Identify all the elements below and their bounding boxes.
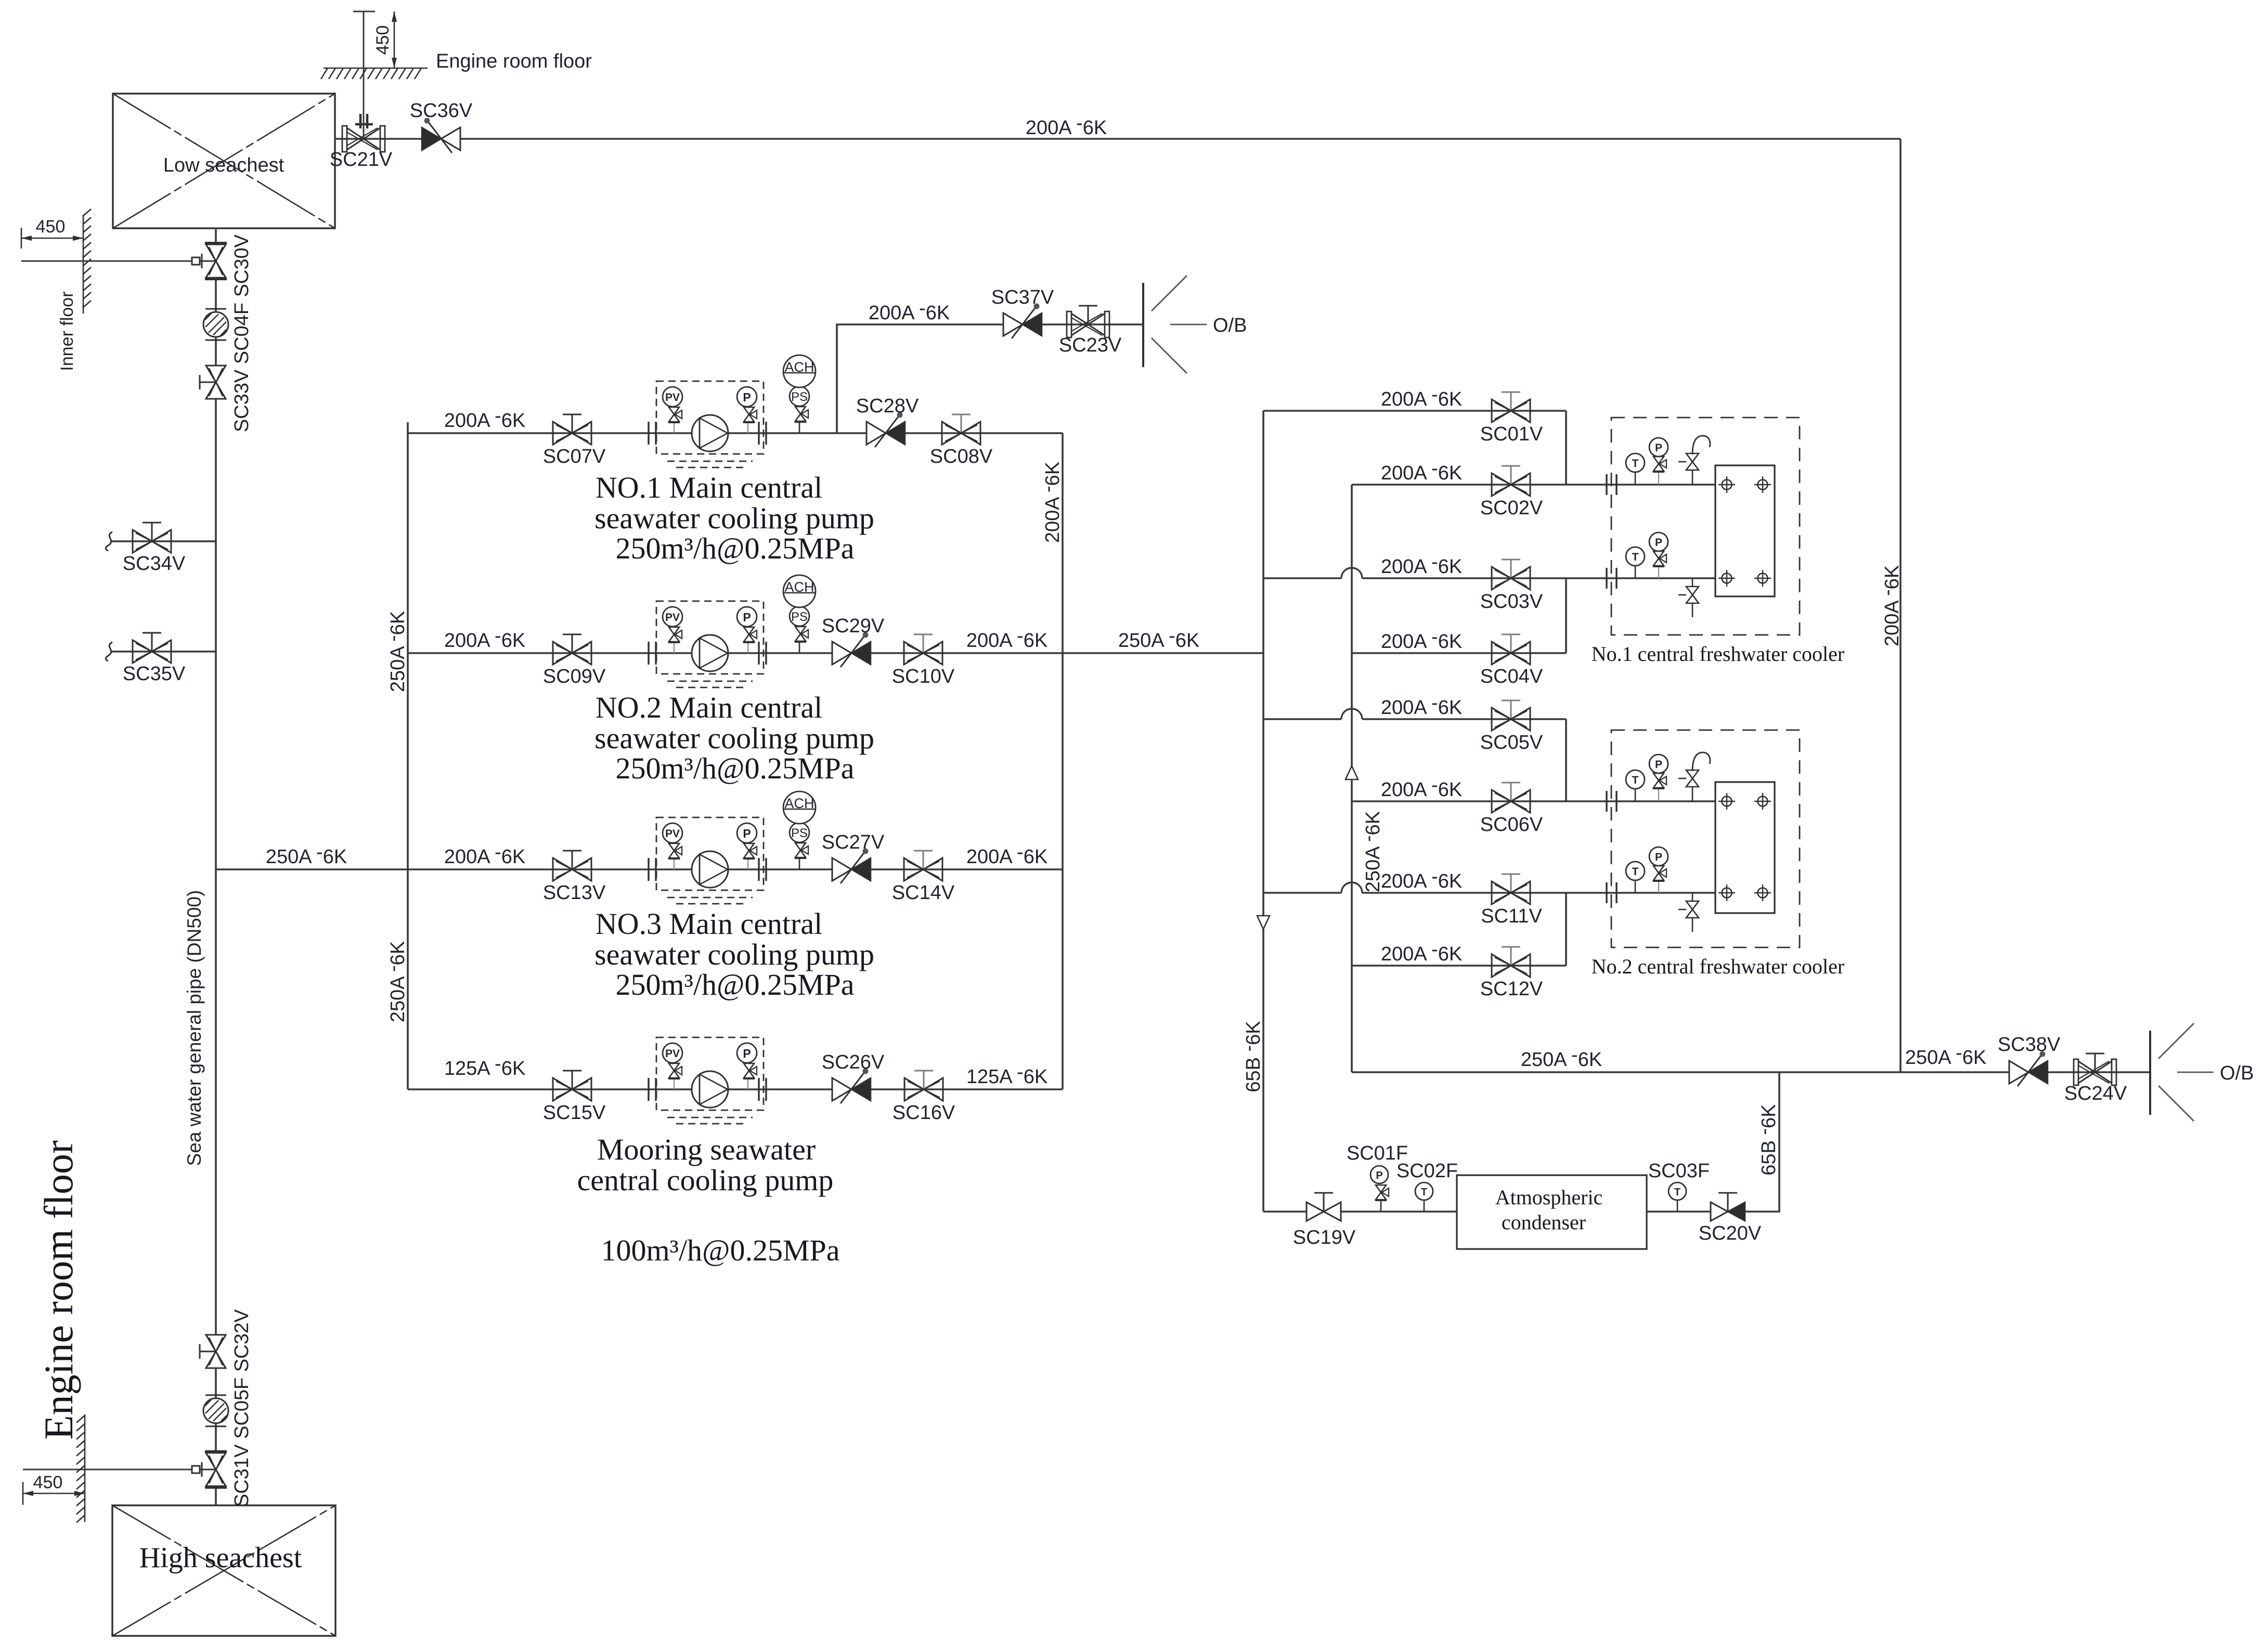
svg-text:Mooring seawater: Mooring seawater [597,1133,816,1166]
valve: cooler 1 drain [1678,578,1699,617]
node: overboard discharge O/B (top) [1143,276,1247,373]
svg-text:PS: PS [791,610,808,624]
valve SC31V [192,1452,227,1487]
svg-text:P: P [1655,442,1662,454]
svg-text:ACH: ACH [784,796,814,811]
svg-text:SC15V: SC15V [543,1102,606,1124]
valve SC07V [543,414,606,467]
svg-text:SC36V: SC36V [410,100,473,122]
strainer SC04F [203,309,228,340]
svg-text:PS: PS [791,390,808,404]
wire: cooler branch SC05V [1263,709,1566,719]
svg-text:P: P [743,610,751,624]
node: cooler 1 port [1754,476,1771,493]
valve SC20V [1699,1193,1762,1244]
valve SC32V [200,1335,226,1368]
valve: cooler 1 air vent [1678,436,1710,485]
valve SC28V [856,395,919,447]
valve SC30V [192,243,227,279]
node: flow arrow up (line2) [1346,766,1358,779]
dimension 450 (bottom) [23,1473,85,1505]
label: Engine room floor (left, large) [36,1140,81,1440]
pump P4 [692,1071,728,1108]
valve SC36V [422,118,460,153]
label: No.1 central freshwater cooler [1592,642,1844,666]
svg-text:seawater cooling pump: seawater cooling pump [594,721,874,755]
svg-text:Engine room floor: Engine room floor [436,50,592,72]
gauge P (cooler 1 outlet) [1649,532,1668,578]
svg-text:NO.1 Main central: NO.1 Main central [596,471,822,504]
node: cooler 1 port [1718,570,1735,587]
label 200A-6K (SC05V branch) [1381,692,1462,719]
valve SC27V [822,831,885,883]
svg-text:SC12V: SC12V [1480,978,1543,1000]
wire: suction header [407,422,409,1089]
valve SC10V [892,634,955,687]
svg-text:ACH: ACH [784,359,814,375]
label 125AA-6K (row 4 right) [966,1061,1048,1088]
svg-text:SC07V: SC07V [543,446,606,467]
svg-text:SC06V: SC06V [1480,814,1543,836]
svg-text:P: P [743,391,751,404]
label: NO.2 pump description [594,691,874,785]
label: Inner floor [57,291,77,371]
valve SC37V [991,287,1054,339]
valve SC03V [1480,560,1543,613]
valve SC04V [1480,634,1543,687]
valve SC06V [1480,783,1543,836]
valve SC01V [1480,392,1543,445]
svg-text:SC16V: SC16V [893,1102,955,1124]
svg-text:Low seachest: Low seachest [163,154,285,176]
wire: deck penetration line to SC30V [21,261,192,262]
svg-text:SC02V: SC02V [1480,497,1543,519]
instrument ACH/PS (pump 2) [783,575,816,653]
wire: 65B condenser outlet riser [1647,1072,1779,1212]
label 200A-6K (right vertical, rotated) [1877,565,1903,646]
gauge P (cooler 1 inlet) [1649,438,1668,485]
flange (cooler 1 outlet) [1607,568,1617,589]
node: engine room floor hatch (top) [321,68,428,79]
pump P2 [692,635,728,671]
svg-text:PS: PS [791,826,808,840]
wire: cooler branch SC11V [1263,882,1715,893]
valve SC33V [200,366,226,399]
label 200A-6K (discharge header, rotated) [1037,462,1064,543]
label 250A-6K (to coolers) [1118,625,1199,652]
label: Mooring pump description [577,1133,840,1267]
label 250A-6K (suction header lower, rotated) [382,941,409,1022]
svg-text:SC19V: SC19V [1293,1227,1356,1248]
svg-text:SC02F: SC02F [1396,1160,1458,1182]
svg-text:SC13V: SC13V [543,882,606,904]
svg-text:PV: PV [665,1048,680,1060]
wire: cooler branch SC04V [1352,652,1566,654]
gauge SC02F [1396,1160,1458,1212]
node: cooler 1 plate block [1715,465,1775,596]
svg-text:450: 450 [373,25,393,55]
wire: pump row 3 pipe [408,868,1063,870]
gauge T (cooler 2 inlet) [1626,770,1645,801]
dimension 450 (inner floor) [21,217,83,249]
valve SC11V [1481,874,1542,927]
gauge T (cooler 1 outlet) [1626,547,1645,578]
node: Low seachest [113,94,335,228]
wire: cooler cross connections at x=3011 [1565,411,1567,966]
label 250A-6K (line2, rotated) [1357,811,1384,892]
gauge PV (pump 1) [663,387,682,433]
svg-text:100m³/h@0.25MPa: 100m³/h@0.25MPa [601,1233,839,1267]
svg-text:condenser: condenser [1502,1211,1586,1234]
gauge SC03F [1648,1160,1710,1212]
flange (pump 1 discharge) [759,422,766,445]
label 250A-6K (bottom right) [1905,1042,1986,1069]
node: cooler 2 port [1718,793,1735,810]
wire: discharge header [1062,433,1064,1089]
svg-text:PV: PV [665,828,680,840]
gauge SC01F [1347,1142,1408,1212]
svg-text:P: P [743,827,751,840]
gauge T (cooler 2 outlet) [1626,862,1645,893]
wire: cooler branch SC06V [1352,800,1715,802]
node: pump 2 unit dashed box [656,601,764,687]
label 200A-6K (overboard line) [869,297,950,324]
label 125AA-6K (row 4 left) [444,1053,525,1079]
svg-text:P: P [743,1047,751,1060]
svg-text:Sea water general pipe (DN500: Sea water general pipe (DN500) [184,890,205,1166]
svg-text:SC03F: SC03F [1648,1160,1710,1182]
instrument ACH/PS (pump 1) [783,355,816,433]
valve SC12V [1480,947,1543,1000]
wire: cooler return line 1 [1262,411,1264,1212]
flange (pump 2 discharge) [759,642,766,665]
gauge P (cooler 2 outlet) [1649,847,1668,893]
node: engine room floor wall (bottom) [76,1414,85,1523]
label 200A-6K (SC12V branch) [1381,939,1462,965]
svg-text:450: 450 [33,1473,63,1492]
label 250A-6K (bottom left) [1521,1044,1602,1071]
valve SC21V [342,114,385,152]
label 200A-6K (SC11V branch) [1381,866,1462,892]
svg-text:450: 450 [36,217,66,237]
label: NO.3 pump description [594,907,874,1001]
wire: deck penetration line to SC31V [23,1469,192,1471]
valve SC08V [930,414,993,467]
node: cooler 2 port [1754,884,1771,901]
svg-text:T: T [1421,1187,1427,1198]
node: No.1 central freshwater cooler dashed box [1611,418,1800,635]
valve: cooler 2 air vent [1678,752,1710,801]
gauge PV (pump 3) [663,823,682,869]
gauge P (cooler 2 inlet) [1649,755,1668,801]
svg-text:SC33V SC04F SC30V: SC33V SC04F SC30V [231,234,253,432]
gauge P (pump 2) [737,607,757,653]
label: No.2 central freshwater cooler [1592,955,1844,978]
svg-text:SC10V: SC10V [892,666,955,687]
flange (pump 3 discharge) [759,858,766,881]
wire: pump row 1 pipe [408,432,1063,434]
strainer SC05F [203,1395,228,1426]
wire: cooler supply line 2 [1351,485,1353,1072]
label 250A-6K (suction header upper, rotated) [382,611,409,692]
svg-text:SC23V: SC23V [1059,334,1122,356]
label SC36V [410,100,473,122]
svg-text:No.2 central freshwater cooler: No.2 central freshwater cooler [1592,955,1844,978]
valve SC15V [543,1071,606,1124]
svg-text:O/B: O/B [1213,315,1247,336]
svg-text:SC35V: SC35V [123,663,186,685]
svg-text:SC38V: SC38V [1998,1034,2061,1056]
svg-text:SC24V: SC24V [2064,1083,2127,1104]
wire: right side 200A vertical [1899,139,1902,1072]
flange (pump 3 suction) [649,858,656,881]
valve SC24V [2064,1053,2127,1104]
flange (pump 2 suction) [649,642,656,665]
label 65B-6K (line1, rotated) [1238,1021,1264,1092]
valve SC05V [1480,700,1543,753]
valve SC09V [543,634,606,687]
svg-text:SC05V: SC05V [1480,732,1543,753]
valve SC13V [543,851,606,904]
node: cooler 2 port [1718,884,1735,901]
gauge P (pump 1) [737,387,757,433]
svg-text:NO.2 Main central: NO.2 Main central [596,691,822,724]
valve: cooler 2 drain [1678,893,1699,932]
pump P1 [692,415,728,451]
svg-text:O/B: O/B [2220,1062,2254,1084]
valve SC02V [1480,466,1543,519]
flange (pump 4 discharge) [759,1078,766,1101]
svg-text:ACH: ACH [784,579,814,595]
valve SC29V [822,615,885,667]
svg-text:250m³/h@0.25MPa: 250m³/h@0.25MPa [615,968,854,1001]
svg-text:seawater cooling pump: seawater cooling pump [594,501,874,535]
label 200A-6K (top line) [1026,112,1107,139]
wire: pump row1 overboard riser [837,324,1143,433]
svg-text:SC26V: SC26V [822,1051,885,1073]
flange (pump 1 suction) [649,422,656,445]
node: pump 4 unit dashed box [656,1037,764,1124]
svg-text:P: P [1655,759,1662,771]
label 200A-6K (SC01V branch) [1381,384,1462,410]
gauge PV (pump 4) [663,1043,682,1089]
svg-text:250m³/h@0.25MPa: 250m³/h@0.25MPa [615,751,854,785]
flange (cooler 1 inlet) [1607,474,1617,495]
svg-text:SC20V: SC20V [1699,1222,1762,1244]
label: NO.1 pump description [594,471,874,565]
wire: cooler branch SC01V [1263,410,1566,412]
wire: cooler branch SC03V [1263,568,1715,578]
node: inner floor wall [83,209,91,314]
wire: 250A cooler outlet bottom line [1352,1071,2150,1073]
svg-text:SC01V: SC01V [1480,423,1543,445]
svg-text:SC11V: SC11V [1481,905,1542,927]
node: cooler 1 port [1754,570,1771,587]
label 65B-6K (riser, rotated) [1753,1104,1780,1175]
valve SC38V [1998,1034,2061,1086]
wire: pump row 4 pipe [408,1088,1063,1090]
gauge P (pump 3) [737,823,757,869]
flange (pump 4 suction) [649,1078,656,1101]
svg-text:T: T [1674,1187,1680,1198]
wire: SC21V vent riser [353,11,375,139]
dimension 450 (engine room floor, top) [373,11,397,68]
svg-text:P: P [1655,851,1662,863]
label SC31V SC05F SC32V [231,1309,253,1507]
label 250A-6K (suction branch) [266,841,347,868]
label 200A-6K (SC04V branch) [1381,626,1462,653]
svg-text:T: T [1632,551,1639,563]
valve SC35V [106,633,216,685]
svg-text:SC08V: SC08V [930,446,993,467]
gauge PV (pump 2) [663,607,682,653]
node: flow arrow down (line1) [1257,916,1270,929]
svg-text:Engine room floor: Engine room floor [36,1140,81,1440]
svg-text:SC04V: SC04V [1480,666,1543,687]
label 200AA-6K (row 3 left) [444,841,525,868]
wire: 65B condenser supply line [1263,1211,1457,1213]
svg-text:T: T [1632,866,1639,878]
valve SC34V [106,523,216,575]
gauge T (cooler 1 inlet) [1626,453,1645,485]
label SC33V SC04F SC30V [231,234,253,432]
svg-text:High seachest: High seachest [139,1542,302,1574]
label 200A-6K (SC06V branch) [1381,774,1462,801]
label 200AA-6K (row 3 right) [966,841,1048,868]
node: overboard discharge O/B (bottom) [2150,1023,2254,1121]
svg-text:P: P [1655,537,1662,549]
svg-text:PV: PV [665,392,680,404]
label 200AA-6K (row 2 left) [444,625,525,652]
svg-text:NO.3 Main central: NO.3 Main central [596,907,822,941]
valve SC19V [1293,1193,1356,1248]
svg-text:SC37V: SC37V [991,287,1054,308]
svg-text:SC27V: SC27V [822,831,885,853]
label: Engine room floor (top) [436,50,592,72]
wire: cooler branch SC02V [1352,484,1715,486]
svg-text:Inner floor: Inner floor [57,291,77,371]
wire: cooler branch SC12V [1352,965,1566,967]
valve SC14V [892,851,955,904]
wire: sea water general pipe vertical DN500 [215,228,217,1505]
label SC21V [330,149,393,171]
label 200AA-6K (row 2 right) [966,625,1048,652]
svg-text:Atmospheric: Atmospheric [1495,1186,1603,1209]
svg-text:SC29V: SC29V [822,615,885,637]
svg-text:P: P [1376,1170,1382,1181]
svg-text:250m³/h@0.25MPa: 250m³/h@0.25MPa [615,531,854,565]
node: Atmospheric condenser [1457,1175,1647,1249]
svg-text:PV: PV [665,612,680,623]
flange (cooler 2 outlet) [1607,882,1617,903]
label 200A-6K (SC02V branch) [1381,458,1462,484]
svg-text:T: T [1632,458,1639,470]
svg-text:SC28V: SC28V [856,395,919,417]
node: pump 3 unit dashed box [656,817,764,904]
node: High seachest [112,1505,335,1636]
pump P3 [692,851,728,888]
instrument ACH/PS (pump 3) [783,791,816,869]
svg-text:SC09V: SC09V [543,666,606,687]
label 200A-6K (SC03V branch) [1381,551,1462,578]
svg-text:SC34V: SC34V [123,553,186,575]
valve SC26V [822,1051,885,1103]
wire: pump row 2 pipe [408,652,1263,654]
wire: 200A main top line [335,138,1900,140]
svg-text:SC14V: SC14V [892,882,955,904]
label: Sea water general pipe (DN500) [184,890,205,1166]
valve SC16V [893,1071,955,1124]
svg-text:SC31V SC05F SC32V: SC31V SC05F SC32V [231,1309,253,1507]
node: No.2 central freshwater cooler dashed box [1611,730,1800,947]
svg-text:SC21V: SC21V [330,149,393,171]
wire: 250A suction branch [216,868,408,870]
svg-text:seawater cooling pump: seawater cooling pump [594,938,874,971]
flange (cooler 2 inlet) [1607,791,1617,812]
node: cooler 1 port [1718,476,1735,493]
svg-text:SC03V: SC03V [1480,591,1543,613]
node: cooler 2 port [1754,793,1771,810]
svg-text:T: T [1632,774,1639,786]
svg-text:No.1 central freshwater cooler: No.1 central freshwater cooler [1592,642,1844,666]
valve SC23V [1059,306,1122,356]
svg-text:central cooling pump: central cooling pump [577,1163,834,1197]
gauge P (pump 4) [737,1043,757,1089]
node: cooler 2 plate block [1715,782,1775,913]
node: pump 1 unit dashed box [656,381,764,467]
label 200AA-6K (row 1 left) [444,405,525,432]
